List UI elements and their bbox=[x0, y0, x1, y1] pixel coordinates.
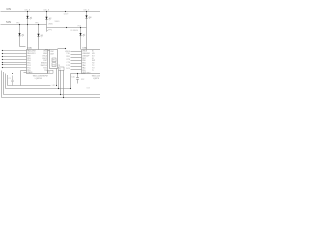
svg-text:Y1: Y1 bbox=[59, 69, 61, 71]
svg-text:TDI: TDI bbox=[44, 70, 47, 72]
svg-text:D5: D5 bbox=[41, 35, 43, 37]
svg-text:D6: D6 bbox=[83, 34, 85, 36]
svg-text:LQFP6: LQFP6 bbox=[93, 78, 99, 80]
svg-text:U2A: U2A bbox=[27, 46, 32, 49]
svg-text:C12: C12 bbox=[81, 79, 84, 81]
svg-text:C2: C2 bbox=[48, 72, 50, 74]
svg-text:D4: D4 bbox=[22, 35, 24, 37]
svg-text:C11: C11 bbox=[71, 77, 74, 79]
svg-text:LQFP64: LQFP64 bbox=[35, 78, 42, 80]
svg-text:USB0: USB0 bbox=[48, 24, 53, 26]
svg-text:DCD: DCD bbox=[66, 68, 71, 70]
svg-text:PD6: PD6 bbox=[78, 26, 81, 28]
svg-text:VBUS: VBUS bbox=[55, 21, 61, 23]
svg-text:R9: R9 bbox=[53, 60, 55, 62]
svg-text:5.0V: 5.0V bbox=[6, 21, 11, 24]
svg-text:D1: D1 bbox=[30, 17, 32, 19]
svg-text:ICDI: ICDI bbox=[87, 87, 91, 89]
svg-text:PF2: PF2 bbox=[16, 23, 19, 25]
svg-text:3.3V: 3.3V bbox=[6, 8, 11, 11]
svg-text:PF1: PF1 bbox=[49, 30, 52, 32]
svg-text:U3A: U3A bbox=[82, 46, 87, 49]
svg-text:WAKE: WAKE bbox=[27, 71, 33, 74]
svg-text:GND: GND bbox=[86, 72, 91, 74]
svg-text:LED_B: LED_B bbox=[44, 10, 50, 12]
svg-text:16M: 16M bbox=[50, 54, 54, 56]
svg-text:ID VBUS: ID VBUS bbox=[71, 30, 79, 32]
svg-text:D3: D3 bbox=[89, 17, 91, 19]
svg-text:PF3: PF3 bbox=[35, 23, 38, 25]
svg-text:C3: C3 bbox=[58, 65, 60, 67]
svg-text:D2: D2 bbox=[49, 18, 51, 20]
svg-text:LED_G: LED_G bbox=[84, 10, 90, 12]
svg-text:R10: R10 bbox=[53, 64, 56, 66]
svg-text:LED_R: LED_R bbox=[25, 10, 31, 12]
svg-text:C1: C1 bbox=[9, 78, 11, 80]
